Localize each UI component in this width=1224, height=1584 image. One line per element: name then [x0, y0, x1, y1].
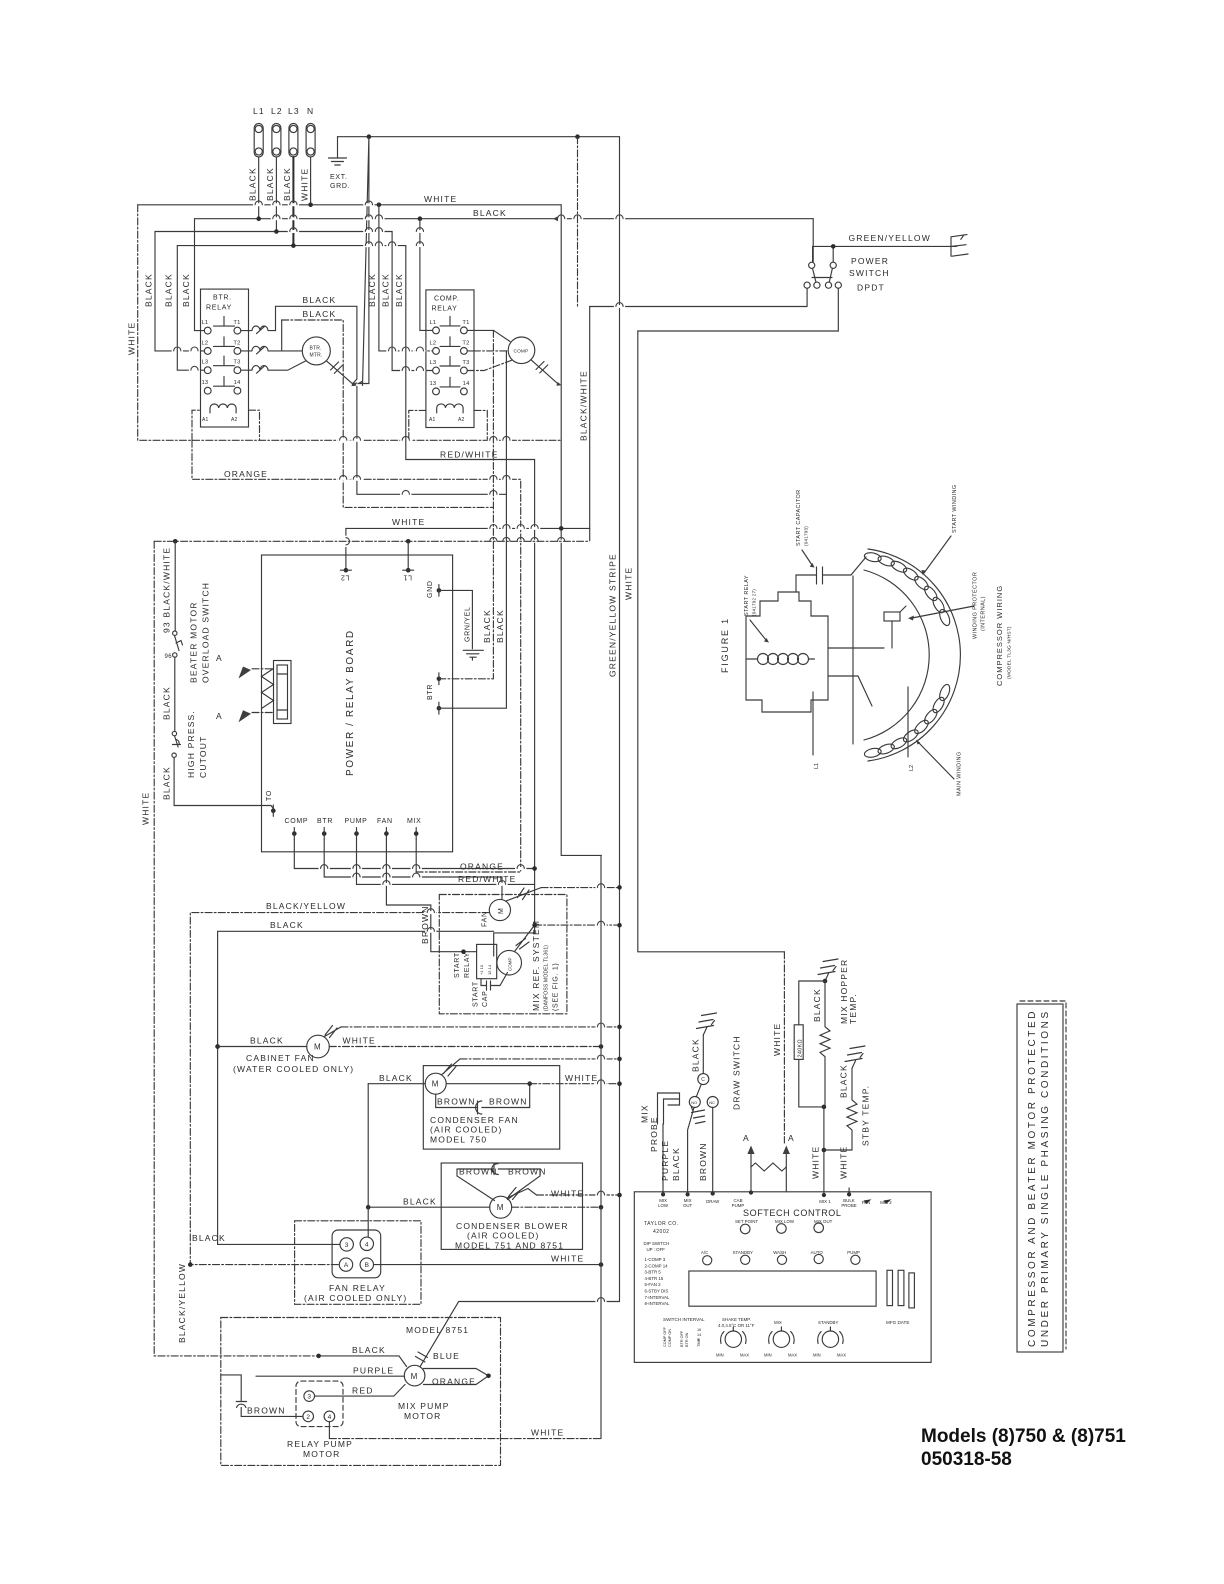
svg-text:BLACK: BLACK: [812, 988, 822, 1022]
svg-text:(MODEL TL3G N/HST): (MODEL TL3G N/HST): [1007, 626, 1013, 679]
svg-text:Models (8)750 & (8)751: Models (8)750 & (8)751: [921, 1426, 1126, 1447]
svg-text:(WATER COOLED ONLY): (WATER COOLED ONLY): [233, 1064, 354, 1074]
svg-text:A: A: [216, 653, 223, 663]
hops of buses over crossing verticals: [255, 201, 263, 205]
winding protector symbol: [884, 612, 900, 621]
svg-text:MFG DATE: MFG DATE: [886, 1320, 909, 1325]
wire comp L2 feed from white bus: [378, 205, 380, 351]
svg-text:7-INTERVAL: 7-INTERVAL: [645, 1295, 671, 1300]
svg-text:COMPRESSOR AND BEATER MOTOR PR: COMPRESSOR AND BEATER MOTOR PROTECTED: [1027, 1009, 1038, 1347]
svg-text:UP : OFF: UP : OFF: [647, 1247, 666, 1252]
resistor mix hopper temp: [820, 981, 830, 1107]
svg-text:T2: T2: [462, 340, 469, 346]
knob mix: [769, 1327, 795, 1347]
svg-text:START: START: [454, 952, 461, 978]
svg-text:BLACK: BLACK: [403, 1197, 437, 1207]
svg-text:14: 14: [697, 1333, 701, 1337]
svg-text:A2: A2: [231, 417, 238, 423]
wire white L2 feed line y528.4: [346, 527, 590, 529]
svg-text:BLACK: BLACK: [181, 273, 191, 307]
node A arrow to control 1: [747, 1146, 754, 1155]
svg-text:HIGH PRESS.: HIGH PRESS.: [186, 710, 196, 778]
svg-text:BLACK: BLACK: [352, 1345, 386, 1355]
relay pump motor terminals: [296, 1381, 343, 1427]
probe mix probe: [658, 1093, 680, 1124]
svg-text:2-COMP 14: 2-COMP 14: [645, 1263, 669, 1268]
motor condenser fan: [425, 1073, 446, 1094]
svg-text:GRN/YEL: GRN/YEL: [465, 606, 472, 642]
box condenser blower: [441, 1163, 582, 1249]
wire left white dash rail down to mix pump: [154, 541, 318, 1356]
svg-text:BTR: BTR: [427, 684, 434, 700]
svg-text:COMP OFF: COMP OFF: [663, 1326, 667, 1347]
svg-text:START: START: [473, 981, 480, 1007]
node A arrow to control 2: [783, 1146, 790, 1155]
svg-text:(AIR COOLED): (AIR COOLED): [430, 1125, 503, 1135]
wire black1 btr T1 up-over to switch: [276, 306, 357, 383]
contact btr row3: [241, 361, 306, 373]
wire comp T3 to motor: [467, 360, 511, 370]
node MIX terminal: [414, 831, 419, 836]
wire btr terminal to fan motor: [324, 840, 502, 900]
svg-text:PUMP: PUMP: [732, 1203, 745, 1208]
board power/relay: [262, 555, 453, 852]
svg-text:L1: L1: [814, 763, 820, 769]
svg-text:PURPLE: PURPLE: [660, 1140, 670, 1181]
terminal L3: [289, 124, 298, 158]
comp switch line to green/yellow: [515, 925, 535, 951]
terminal L2: [272, 124, 281, 158]
svg-text:GREEN/YELLOW STRIPE: GREEN/YELLOW STRIPE: [608, 553, 618, 677]
svg-text:BLUE: BLUE: [433, 1351, 460, 1361]
node L1 to black bus: [256, 216, 261, 221]
svg-text:BLACK: BLACK: [250, 1036, 284, 1046]
wire from switch bottom right to white drop: [638, 288, 839, 331]
wire black mix out: [688, 1108, 694, 1192]
svg-text:SWITCH INTERVAL: SWITCH INTERVAL: [663, 1317, 705, 1322]
svg-text:FIGURE 1: FIGURE 1: [720, 617, 730, 673]
svg-text:GRD.: GRD.: [330, 183, 350, 190]
wire L2 drop into board: [345, 528, 347, 570]
cable zigzag: [262, 669, 274, 709]
relay BTR: [201, 289, 249, 427]
svg-text:OUT: OUT: [683, 1203, 693, 1208]
svg-text:MAX: MAX: [788, 1353, 797, 1358]
svg-text:WHITE: WHITE: [141, 792, 151, 825]
svg-text:MIX LOW: MIX LOW: [775, 1219, 795, 1224]
svg-text:STBY TEMP.: STBY TEMP.: [861, 1085, 871, 1146]
svg-text:5-FAN 2: 5-FAN 2: [645, 1282, 662, 1287]
svg-text:COMP: COMP: [285, 818, 309, 825]
svg-text:BLACK: BLACK: [282, 167, 292, 201]
wire comp T2 to motor: [467, 350, 473, 352]
wire green/yellow stripe vertical: [619, 137, 621, 1302]
svg-text:ORANGE: ORANGE: [432, 1377, 476, 1387]
node GND terminal: [437, 588, 442, 593]
svg-text:BTR ON: BTR ON: [685, 1332, 689, 1347]
svg-text:PROBE: PROBE: [649, 1116, 659, 1152]
svg-text:BTR.: BTR.: [310, 346, 322, 352]
svg-text:MIX 2: MIX 2: [880, 1200, 892, 1205]
svg-text:RELAY PUMP: RELAY PUMP: [287, 1439, 353, 1449]
banner compressor protected: [1017, 1004, 1063, 1352]
svg-text:(041793): (041793): [804, 526, 809, 546]
relay START RELAY: [477, 944, 497, 978]
wire L2 black drop: [275, 157, 277, 232]
wire brown draw: [712, 1108, 714, 1192]
svg-text:BLACK/YELLOW: BLACK/YELLOW: [266, 901, 346, 911]
svg-text:WASH: WASH: [773, 1250, 786, 1255]
contact btr row1: [241, 326, 276, 334]
svg-text:1-COMP 3: 1-COMP 3: [645, 1257, 666, 1262]
svg-text:L1: L1: [202, 320, 209, 326]
svg-text:BEATER MOTOR: BEATER MOTOR: [189, 601, 199, 683]
svg-text:M: M: [497, 1203, 504, 1212]
leader main winding: [918, 742, 954, 779]
svg-text:BLACK: BLACK: [265, 167, 275, 201]
ext ground symbol: [329, 137, 347, 165]
wire white to mix1 terminal: [823, 1107, 825, 1192]
svg-text:L3: L3: [202, 360, 209, 366]
wire black feed condenser blower: [368, 1206, 490, 1208]
wire pump terminal drop: [356, 840, 358, 885]
comp coil terminal box dashed: [409, 410, 488, 439]
wire white bus: [138, 204, 562, 206]
svg-text:BLACK: BLACK: [671, 1147, 681, 1181]
earth ground at right of green/yellow: [951, 235, 968, 257]
svg-text:M: M: [432, 1080, 439, 1089]
svg-text:STANDBY: STANDBY: [733, 1250, 753, 1255]
wire black2 btr T2 dash-dot over to board: [281, 320, 283, 351]
svg-text:BLACK: BLACK: [473, 208, 507, 218]
svg-text:WHITE: WHITE: [811, 1146, 821, 1179]
svg-text:POWER: POWER: [851, 256, 889, 266]
box mix ref system dash-dot: [439, 895, 567, 1014]
svg-text:A: A: [788, 1133, 795, 1143]
capacitor START CAP: [481, 973, 508, 991]
svg-text:BLACK: BLACK: [367, 273, 377, 307]
motor condenser blower: [490, 1196, 512, 1218]
svg-text:16: 16: [697, 1328, 701, 1332]
leader start capacitor: [802, 550, 812, 565]
motor comp (mix ref): [497, 950, 522, 975]
svg-text:BLACK: BLACK: [379, 1073, 413, 1083]
svg-text:SWITCH: SWITCH: [849, 268, 890, 278]
svg-text:13: 13: [430, 381, 437, 387]
svg-text:POWER / RELAY BOARD: POWER / RELAY BOARD: [345, 629, 356, 776]
svg-text:CABINET FAN: CABINET FAN: [246, 1053, 315, 1063]
svg-text:DRAW: DRAW: [706, 1199, 720, 1204]
svg-text:MOTOR: MOTOR: [303, 1449, 340, 1459]
relay to housing connections: [828, 621, 892, 706]
terminal L1: [254, 124, 263, 158]
svg-text:3: 3: [345, 1242, 349, 1249]
svg-text:RELAY: RELAY: [432, 306, 458, 313]
svg-text:BROWN: BROWN: [489, 1097, 528, 1107]
svg-text:OVERLOAD SWITCH: OVERLOAD SWITCH: [201, 582, 211, 683]
wire btr2 chain: [439, 351, 507, 708]
relay fan relay inner: [332, 1230, 381, 1278]
svg-text:T2: T2: [233, 340, 240, 346]
svg-text:BLACK: BLACK: [144, 273, 154, 307]
svg-text:WHITE: WHITE: [551, 1189, 584, 1199]
svg-text:(041792 27): (041792 27): [752, 589, 757, 616]
wire black to comp start: [218, 931, 494, 1244]
wire white condenser fan: [446, 1083, 530, 1085]
node L2 to bus3: [274, 229, 279, 234]
switch beater motor overload: [173, 631, 183, 657]
wire L1 drop into board: [407, 541, 409, 570]
svg-text:DRAW SWITCH: DRAW SWITCH: [732, 1035, 742, 1110]
svg-text:050318-58: 050318-58: [921, 1449, 1012, 1470]
svg-text:ORANGE: ORANGE: [224, 469, 268, 479]
node BTR terminal: [322, 831, 327, 836]
svg-text:TAYLOR CO.: TAYLOR CO.: [644, 1221, 679, 1227]
svg-text:T1: T1: [233, 320, 240, 326]
svg-text:RED/WHITE: RED/WHITE: [440, 450, 499, 460]
contact btr row2: [241, 346, 302, 354]
svg-text:MIN: MIN: [716, 1353, 724, 1358]
svg-text:TO: TO: [266, 790, 273, 801]
svg-text:FAN: FAN: [862, 1200, 871, 1205]
svg-text:(SEE FIG. 1): (SEE FIG. 1): [553, 963, 560, 1011]
svg-text:MAX: MAX: [740, 1353, 749, 1358]
svg-text:BLACK: BLACK: [303, 295, 337, 305]
svg-text:COMP: COMP: [514, 348, 529, 354]
motor BTR MTR: [302, 337, 330, 365]
wire bus3: [155, 231, 392, 233]
node PUMP terminal: [354, 831, 359, 836]
relay coil spiral: [758, 654, 809, 665]
knob standby: [818, 1327, 844, 1347]
svg-text:WHITE: WHITE: [839, 1146, 849, 1179]
wire red/white from comp coil box: [357, 246, 535, 885]
svg-text:NC: NC: [709, 1100, 715, 1105]
wire orange from btr coil box: [192, 440, 521, 872]
wire white dash rail left and across y440: [138, 205, 562, 440]
ground draw switch: [697, 1013, 717, 1035]
coil BTR A1-A2: [210, 404, 236, 413]
svg-text:(DANFOSS MODEL TL361): (DANFOSS MODEL TL361): [544, 945, 550, 1011]
start relay body: [746, 592, 828, 712]
node N to white bus: [308, 203, 313, 208]
svg-text:PUMP: PUMP: [847, 1250, 860, 1255]
svg-text:BROWN: BROWN: [247, 1406, 286, 1416]
node A arrow upper: [252, 668, 274, 670]
svg-text:MIX: MIX: [407, 818, 422, 825]
wire dash-dot line y541.3 L1 feed: [154, 540, 590, 542]
svg-text:4: 4: [365, 1241, 369, 1248]
svg-text:COMP ON: COMP ON: [668, 1329, 672, 1347]
svg-text:START CAPACITOR: START CAPACITOR: [796, 489, 802, 546]
svg-text:FAN: FAN: [377, 818, 393, 825]
node COMP terminal: [292, 831, 297, 836]
main winding coil: [864, 683, 952, 759]
svg-text:96: 96: [165, 654, 173, 660]
node top junction B: [575, 134, 580, 139]
comp motor thermal switch line with slashes and arrow: [531, 360, 557, 383]
power switch DPDT poles: [804, 262, 841, 288]
svg-text:BLACK: BLACK: [691, 1038, 701, 1072]
green/yellow wire to earth: [813, 245, 957, 247]
capacitor condenser fan brown loop: [436, 1086, 530, 1114]
wire L3 black drop: [292, 157, 294, 246]
svg-text:SOFTECH CONTROL: SOFTECH CONTROL: [743, 1208, 842, 1218]
wire grn/yel to ground: [439, 590, 473, 648]
node TO terminal: [271, 808, 276, 813]
svg-text:L2: L2: [340, 574, 349, 581]
wire fan terminal to start relay (brown): [386, 840, 476, 952]
start winding coil: [864, 551, 952, 627]
motor COMP: [508, 337, 535, 364]
wire blue diagonal to control: [420, 1302, 620, 1367]
svg-text:RED: RED: [352, 1386, 374, 1396]
resistor 240K: [799, 981, 825, 1025]
ground mix hopper temp: [818, 959, 838, 981]
coil COMP A1-A2: [437, 404, 463, 413]
svg-text:N: N: [307, 106, 314, 116]
box condenser fan model 750: [423, 1066, 559, 1150]
svg-text:BLACK: BLACK: [248, 167, 258, 201]
svg-text:BROWN: BROWN: [698, 1142, 708, 1181]
svg-text:BLACK: BLACK: [303, 309, 337, 319]
svg-text:L1: L1: [430, 320, 437, 326]
svg-text:GREEN/YELLOW: GREEN/YELLOW: [849, 233, 931, 243]
motor cabinet fan: [215, 1044, 220, 1049]
svg-text:GND: GND: [427, 580, 434, 598]
svg-text:BLACK: BLACK: [164, 273, 174, 307]
condenser fan switch line: [442, 1059, 461, 1076]
wire top line to green/yellow stripe corner: [369, 136, 620, 138]
compressor housing arcs: [868, 549, 960, 761]
svg-text:WHITE: WHITE: [551, 1254, 584, 1264]
node black bus to comp L1 drop: [418, 216, 423, 221]
svg-text:8-INTERVAL: 8-INTERVAL: [645, 1301, 671, 1306]
svg-text:COMP.: COMP.: [434, 296, 460, 303]
svg-text:(INTERNAL): (INTERNAL): [981, 596, 987, 631]
svg-text:BLACK/WHITE: BLACK/WHITE: [579, 370, 589, 441]
node L3 to bus4: [291, 243, 296, 248]
svg-text:MAIN WINDING: MAIN WINDING: [957, 751, 963, 796]
wire btr feed bus3 corner down to L2: [155, 232, 204, 351]
condenser blower switch line: [507, 1188, 537, 1200]
svg-text:(AIR COOLED): (AIR COOLED): [467, 1231, 540, 1241]
svg-text:3-BTR 5: 3-BTR 5: [645, 1270, 662, 1275]
svg-text:STANDBY: STANDBY: [818, 1320, 838, 1325]
wire black into mix pump motor: [319, 1356, 407, 1367]
wire white bus drop x561.2: [561, 205, 601, 856]
svg-text:A/C: A/C: [701, 1250, 708, 1255]
svg-text:A: A: [344, 1262, 349, 1269]
svg-text:MTR.: MTR.: [310, 353, 323, 359]
svg-text:COMP: COMP: [508, 958, 513, 972]
svg-text:WHITE: WHITE: [392, 517, 425, 527]
wire power feed dashed to control: [783, 952, 785, 1143]
display window: [689, 1271, 876, 1306]
relay COMP: [426, 290, 474, 428]
svg-text:MIN: MIN: [813, 1353, 821, 1358]
svg-text:LOW: LOW: [658, 1203, 669, 1208]
svg-text:BLACK: BLACK: [381, 273, 391, 307]
wire white from relay terminal B: [374, 1264, 602, 1266]
wire btr1 chain dash-dot: [439, 330, 494, 678]
svg-text:WHITE: WHITE: [300, 168, 310, 201]
wire white vertical x601: [600, 855, 602, 1438]
svg-text:BLACK: BLACK: [162, 686, 172, 720]
node A arrow lower: [252, 712, 274, 714]
wire btr feed bus2 corner down to L1: [195, 219, 205, 331]
wire purple mix probe to control: [662, 1124, 664, 1192]
wire L2 lead: [907, 687, 909, 757]
svg-text:CONDENSER FAN: CONDENSER FAN: [430, 1115, 519, 1125]
svg-text:FAN: FAN: [482, 911, 489, 927]
svg-text:PUMP: PUMP: [345, 818, 368, 825]
svg-text:14: 14: [463, 381, 470, 387]
svg-text:L1: L1: [253, 106, 265, 116]
svg-text:L2: L2: [909, 765, 915, 771]
svg-text:BLACK: BLACK: [192, 1233, 226, 1243]
capacitor start cap fig1: [796, 557, 866, 592]
wire orange loop from mix pump motor: [424, 1369, 489, 1385]
svg-text:SHAKE TEMP.: SHAKE TEMP.: [722, 1317, 751, 1322]
wire L1 line drop x589.7: [589, 307, 591, 541]
wire black to TO terminal: [174, 757, 273, 813]
wire comp T1 to motor: [467, 330, 510, 341]
svg-text:4: 4: [328, 1414, 332, 1421]
svg-text:L3: L3: [430, 360, 437, 366]
svg-text:14: 14: [234, 380, 241, 386]
svg-text:BROWN: BROWN: [437, 1097, 476, 1107]
svg-text:3: 3: [307, 1394, 311, 1401]
svg-text:PURPLE: PURPLE: [353, 1366, 394, 1376]
svg-text:240KΩ: 240KΩ: [798, 1039, 804, 1057]
svg-text:L2: L2: [202, 340, 209, 346]
svg-text:BLACK: BLACK: [270, 920, 304, 930]
svg-text:START WINDING: START WINDING: [952, 484, 958, 533]
svg-text:RELAY: RELAY: [464, 952, 471, 978]
svg-text:L1: L1: [403, 574, 412, 581]
svg-text:A: A: [743, 1133, 750, 1143]
svg-text:MIX REF. SYSTEM: MIX REF. SYSTEM: [531, 920, 541, 1011]
wire comp terminal to mix system: [294, 840, 534, 869]
svg-text:A: A: [216, 711, 223, 721]
svg-text:13: 13: [202, 380, 209, 386]
leader winding protector: [912, 606, 974, 618]
svg-text:L2: L2: [430, 340, 437, 346]
svg-text:+1 10: +1 10: [479, 964, 484, 975]
resistor stby temp: [824, 1068, 857, 1150]
wire black/yellow to fan relay A: [190, 913, 489, 1265]
svg-text:WHITE: WHITE: [624, 567, 634, 600]
btr coil terminal box dashed: [192, 410, 260, 440]
ground stby temp: [845, 1046, 865, 1068]
svg-text:MOTOR: MOTOR: [404, 1411, 441, 1421]
wire red into mix pump motor: [315, 1385, 406, 1397]
wire mix terminal drop (orange): [415, 840, 417, 872]
motor fan (mix ref): [489, 899, 510, 920]
wire ext grd to top line: [338, 136, 369, 138]
wire black feed condenser fan: [368, 1083, 425, 1085]
svg-text:BLACK: BLACK: [482, 609, 492, 643]
svg-text:CONDENSER BLOWER: CONDENSER BLOWER: [456, 1221, 569, 1231]
switch high press cutout: [172, 731, 181, 757]
svg-text:RELAY: RELAY: [206, 305, 232, 312]
wire L1 lead: [812, 692, 814, 755]
power switch black feed down: [812, 219, 814, 262]
svg-text:BLACK: BLACK: [394, 273, 404, 307]
svg-text:DPDT: DPDT: [857, 283, 885, 293]
svg-text:15 14: 15 14: [487, 964, 492, 975]
